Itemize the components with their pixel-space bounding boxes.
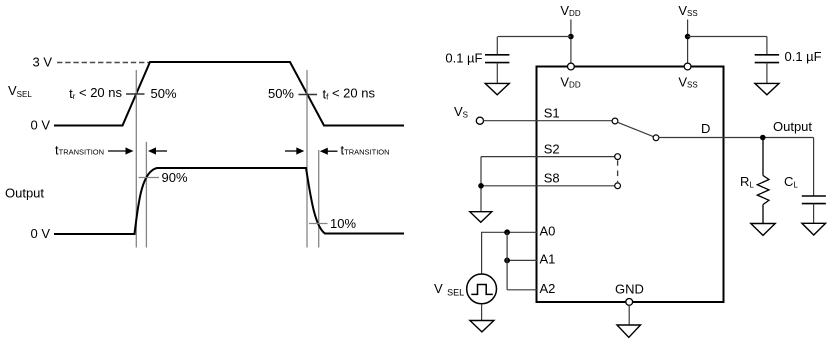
node tf < 20 ns label <box>323 86 376 102</box>
node 50% crossing marker line (falling) <box>306 70 308 248</box>
wire D output <box>659 137 814 139</box>
node GND pin label <box>615 282 644 297</box>
resistor RL <box>757 138 769 224</box>
node VS source label <box>454 104 468 120</box>
ground below VSEL <box>470 304 494 332</box>
node switch pole circle S1 <box>612 118 618 124</box>
node 50% label falling <box>268 86 294 101</box>
svg-text:Output: Output <box>5 186 44 201</box>
node 0V level label (Output) <box>30 226 50 241</box>
svg-text:S1: S1 <box>544 106 560 121</box>
node VDD pin circle <box>568 63 575 70</box>
node junction VDD <box>568 34 574 40</box>
wire tTRANSITION arrow right inner <box>320 148 338 155</box>
wire tTRANSITION arrow left inner <box>148 147 167 154</box>
node GND pin circle <box>626 299 633 306</box>
node A2 pin label <box>540 281 556 296</box>
node D pin label <box>701 121 710 136</box>
wire dashed S2-S8 ellipsis <box>617 160 619 183</box>
wire VSS vertical <box>687 20 689 64</box>
node 50% label rising <box>151 86 177 101</box>
ground below C2 <box>755 83 779 94</box>
node junction A0 <box>504 229 510 235</box>
svg-text:tr < 20 ns: tr < 20 ns <box>69 85 122 101</box>
node 50% tick falling <box>299 94 318 96</box>
op-amp U1 multiplexer box <box>537 67 724 303</box>
node switch throw circle D <box>653 135 659 141</box>
ground below RL <box>751 224 775 236</box>
svg-text:S2: S2 <box>544 142 560 157</box>
node 90% marker line (rising) <box>145 142 147 248</box>
svg-text:90%: 90% <box>162 170 188 185</box>
node A1 pin label <box>540 252 556 267</box>
svg-text:GND: GND <box>615 282 644 297</box>
svg-text:S8: S8 <box>544 171 560 186</box>
capacitor C1 0.1uF (VDD bypass) <box>485 37 509 84</box>
node Output net label <box>773 119 812 134</box>
node 90% tick <box>139 177 160 179</box>
node Output axis label <box>5 186 44 201</box>
node A0 pin label <box>540 224 556 239</box>
node VDD pin label <box>560 75 580 90</box>
wire dashed 3V reference line <box>57 62 150 64</box>
svg-text:10%: 10% <box>330 216 356 231</box>
svg-text:0.1 µF: 0.1 µF <box>785 49 822 64</box>
node CL label <box>784 174 798 190</box>
wire A1 input <box>507 259 537 261</box>
wire VDD to bypass cap <box>498 36 571 38</box>
wire VSEL waveform trace <box>54 62 404 126</box>
wire S8 input <box>481 185 615 187</box>
svg-text:tf < 20 ns: tf < 20 ns <box>323 86 376 102</box>
node 50% tick rising <box>126 93 145 95</box>
ground below S2/S8 <box>470 212 492 223</box>
node S8 terminal circle <box>615 183 621 189</box>
svg-text:50%: 50% <box>151 86 177 101</box>
svg-text:Output: Output <box>773 119 812 134</box>
node VSS supply label <box>678 3 697 18</box>
node 50% crossing marker line (rising) <box>135 70 137 248</box>
wire switch arm <box>618 122 654 136</box>
node junction output <box>760 135 766 141</box>
svg-text:A1: A1 <box>540 252 556 267</box>
ground below CL <box>802 223 826 235</box>
node VSEL input label <box>8 83 32 99</box>
node tTRANSITION label left <box>55 143 104 158</box>
wire tTRANSITION arrow right outer <box>285 147 304 154</box>
node VSEL source label <box>434 281 464 298</box>
node junction A1 <box>504 258 510 264</box>
node 3V level label <box>32 55 52 70</box>
node junction S8 <box>478 183 484 189</box>
wire A2 input <box>507 289 537 291</box>
svg-text:50%: 50% <box>268 86 294 101</box>
node S2 pin label <box>544 142 560 157</box>
node RL label <box>740 174 754 190</box>
wire A0-A1-A2 tie vertical <box>506 232 508 289</box>
capacitor CL <box>802 138 826 224</box>
svg-text:D: D <box>701 121 710 136</box>
wire S1 input <box>484 120 613 122</box>
capacitor C2 0.1uF (VSS bypass) <box>755 37 779 84</box>
node VSS pin label <box>678 75 697 90</box>
node 10% label <box>330 216 356 231</box>
svg-text:A2: A2 <box>540 281 556 296</box>
svg-text:0 V: 0 V <box>30 226 50 241</box>
node tTRANSITION label right <box>341 143 390 158</box>
node VSS pin circle <box>684 63 691 70</box>
node junction VSS <box>685 34 691 40</box>
wire S2/S8 common left vertical <box>480 157 482 212</box>
node S1 pin label <box>544 106 560 121</box>
svg-text:3 V: 3 V <box>32 55 52 70</box>
node VS terminal circle <box>476 117 483 124</box>
node 0.1uF value label right <box>785 49 822 64</box>
svg-text:0 V: 0 V <box>30 118 50 133</box>
svg-text:0.1 µF: 0.1 µF <box>445 51 482 66</box>
ground below C1 <box>485 83 509 94</box>
node 90% label <box>162 170 188 185</box>
wire VSS to bypass cap <box>688 36 767 38</box>
svg-text:A0: A0 <box>540 224 556 239</box>
ground below GND <box>617 305 641 337</box>
wire A0 input <box>482 232 537 274</box>
node tr < 20 ns label <box>69 85 122 101</box>
node VDD supply label <box>560 3 580 18</box>
wire S2 input <box>481 156 615 158</box>
wire Output waveform trace <box>54 168 404 234</box>
node 0.1uF value label left <box>445 51 482 66</box>
node 10% marker line (falling) <box>318 150 320 248</box>
wire VDD vertical <box>570 20 572 64</box>
node 10% tick <box>309 223 328 225</box>
node S2 terminal circle <box>615 154 621 160</box>
node S8 pin label <box>544 171 560 186</box>
node 0V level label (VSEL) <box>30 118 50 133</box>
transistor VSEL pulse source circle <box>467 274 497 304</box>
wire tTRANSITION arrow left outer <box>108 147 134 154</box>
